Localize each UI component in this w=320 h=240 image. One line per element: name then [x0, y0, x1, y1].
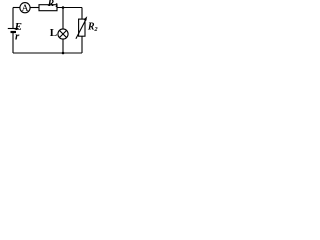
- svg-text:r: r: [15, 31, 20, 43]
- svg-text:1: 1: [55, 3, 58, 9]
- svg-text:A: A: [22, 4, 29, 14]
- svg-text:L: L: [50, 27, 57, 39]
- svg-text:2: 2: [93, 26, 98, 33]
- svg-text:R: R: [47, 0, 54, 9]
